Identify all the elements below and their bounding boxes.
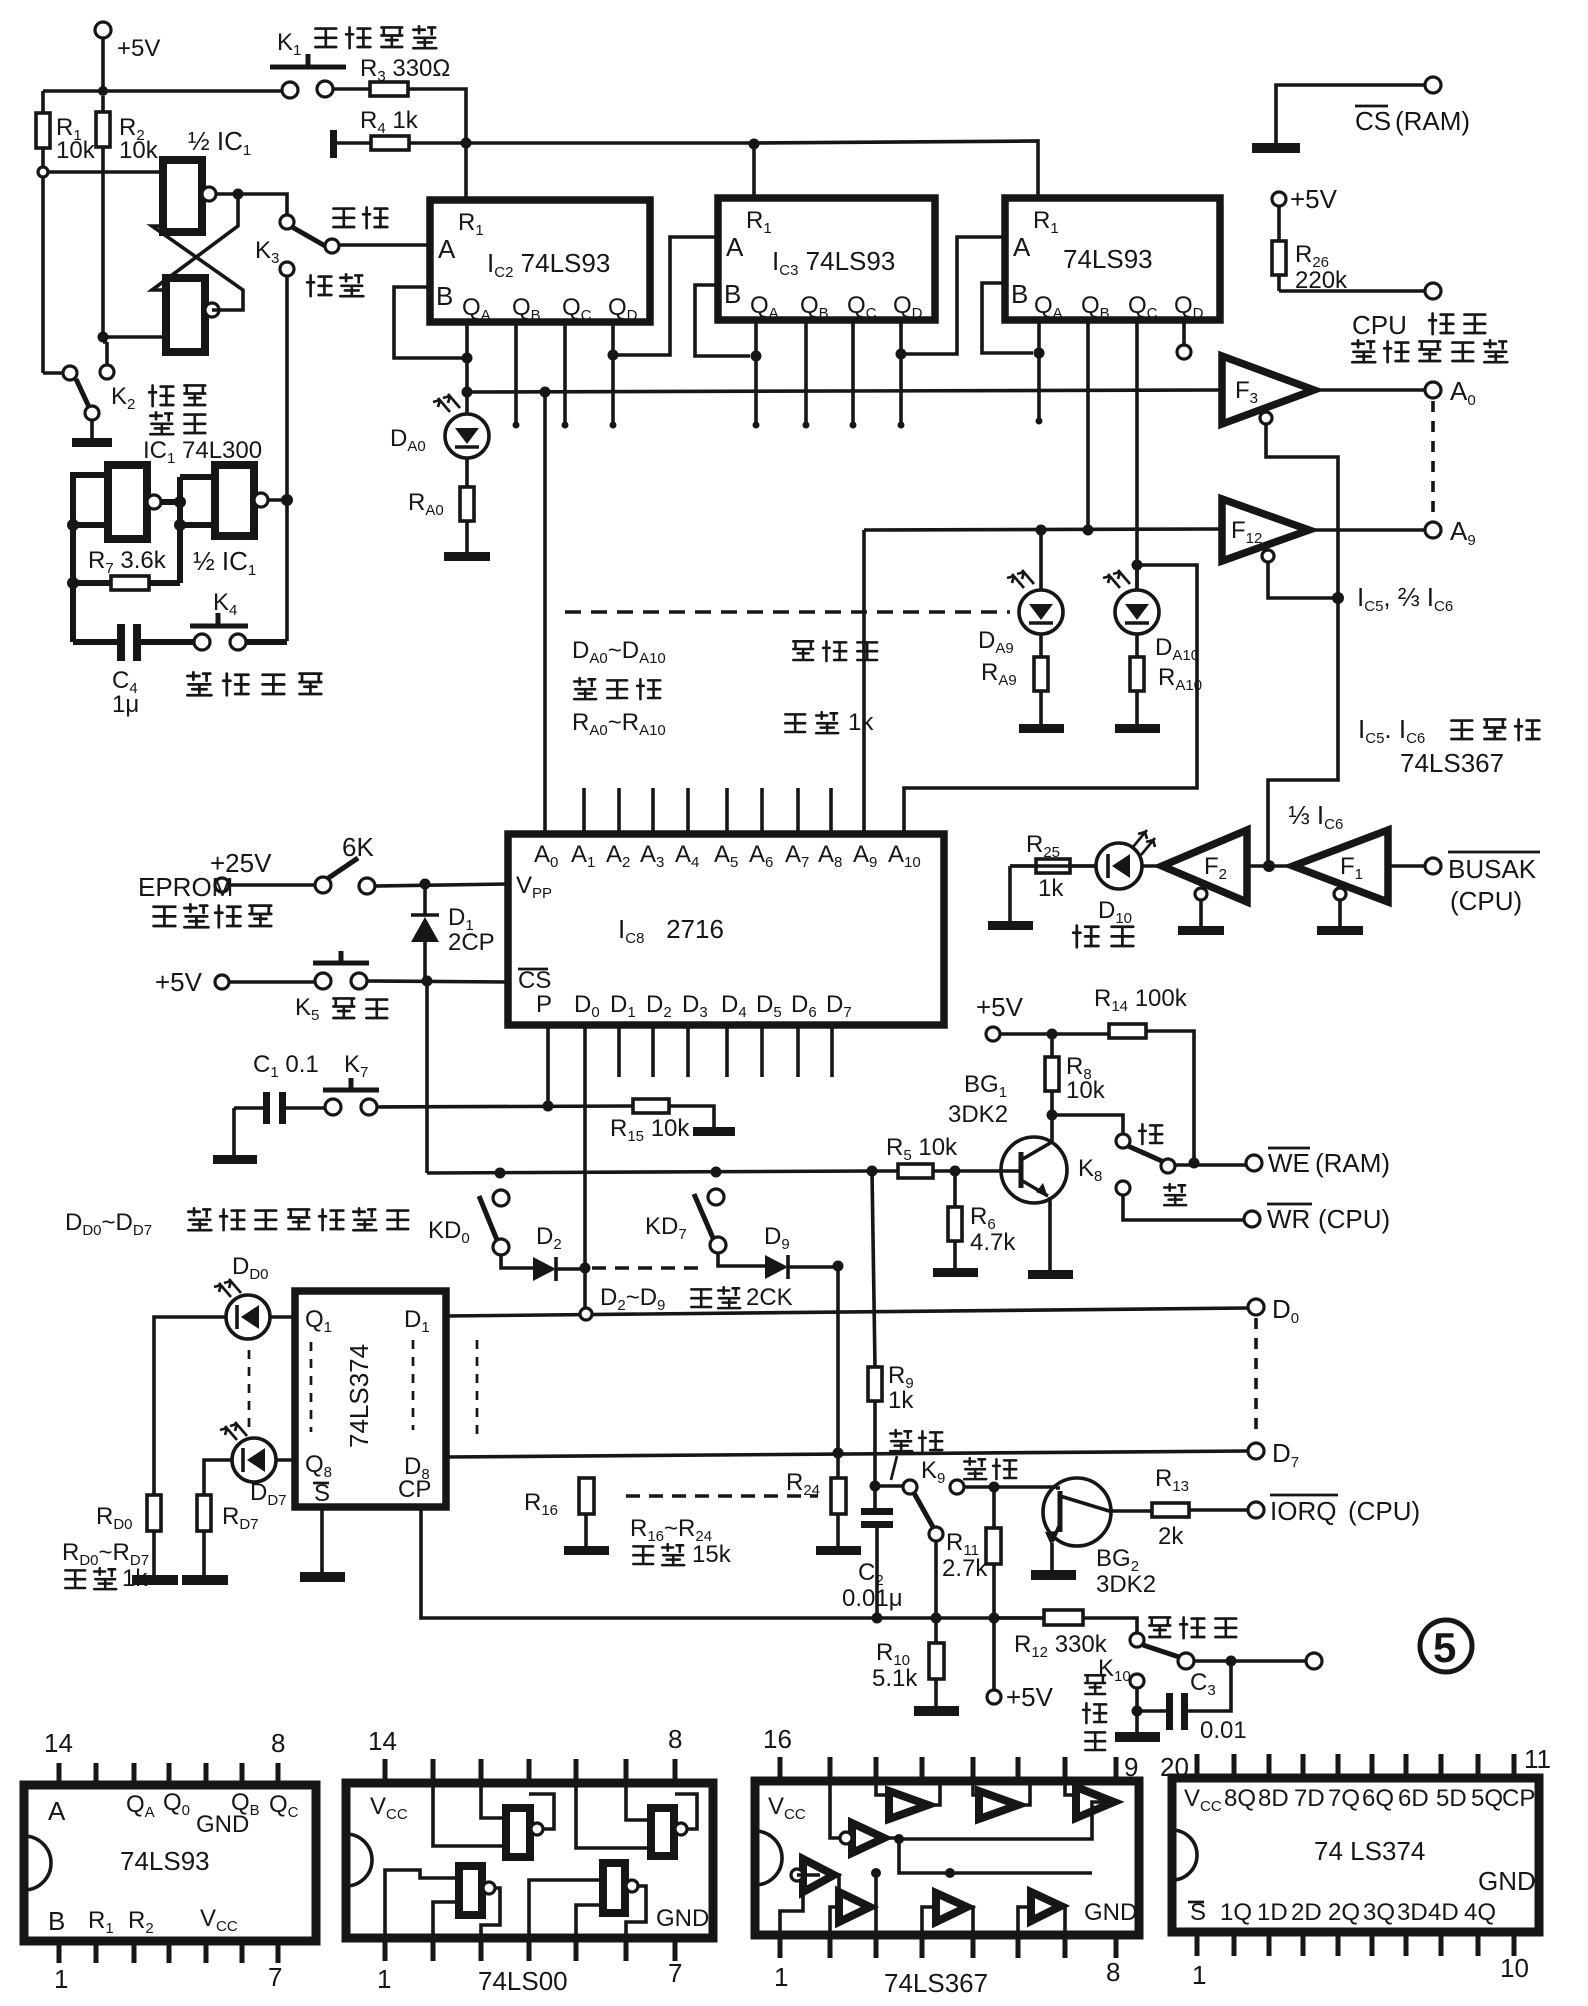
IC pinout 74LS367 bbox=[755, 1724, 1139, 1998]
svg-text:2D: 2D bbox=[1291, 1899, 1322, 1926]
svg-text:8: 8 bbox=[668, 1724, 682, 1754]
inverter E1 of 74LS367 bbox=[840, 1823, 884, 1853]
svg-text:WE: WE bbox=[1268, 1148, 1310, 1178]
wires 74LS00 internal bbox=[385, 1783, 697, 1938]
node A10 tap bbox=[1132, 560, 1143, 571]
svg-text:0.01: 0.01 bbox=[1200, 1717, 1247, 1744]
terminal D7 bbox=[1248, 1438, 1299, 1471]
resistor RD7 bbox=[197, 1495, 259, 1575]
inverter E2 of 74LS367 bbox=[791, 1859, 834, 1892]
terminal D0 bbox=[1248, 1294, 1299, 1327]
nand gate G4 (half IC1 oscillator) bbox=[215, 465, 268, 536]
resistor R26 220k bbox=[1272, 206, 1348, 294]
svg-text:(CPU): (CPU) bbox=[1318, 1204, 1390, 1234]
svg-text:6Q: 6Q bbox=[1362, 1785, 1394, 1812]
svg-text:GND: GND bbox=[1478, 1866, 1536, 1896]
wire +5V down to bus bbox=[101, 38, 105, 91]
IC 74LS374 latch bbox=[295, 1291, 446, 1507]
wire R1 column down to K2 bbox=[41, 177, 45, 373]
terminal WE(RAM) bbox=[1246, 1148, 1390, 1178]
resistor R14 100k bbox=[1094, 985, 1194, 1160]
ground RD7 bbox=[182, 1575, 228, 1585]
wire +5V to R8 top bbox=[1000, 1032, 1109, 1036]
svg-text:+5V: +5V bbox=[1290, 184, 1338, 214]
wire A3 stub bbox=[651, 788, 655, 834]
wire output to BG2 base bbox=[964, 1485, 1056, 1489]
wire IC2 QB stub bbox=[514, 322, 518, 423]
svg-text:R5 10k: R5 10k bbox=[886, 1134, 958, 1164]
dashed D lines omitted bbox=[476, 1340, 479, 1440]
buffer F1 bbox=[1293, 830, 1388, 935]
wire G3 out to G4 inputs bbox=[161, 477, 215, 583]
svg-text:B: B bbox=[48, 1906, 65, 1936]
svg-text:½ IC1: ½ IC1 bbox=[188, 126, 251, 159]
wire A0 column down to EPROM bbox=[543, 392, 547, 834]
resistor R13 2k bbox=[1152, 1465, 1248, 1550]
svg-text:1: 1 bbox=[377, 1964, 391, 1994]
wire D2 stub bbox=[651, 1025, 655, 1077]
ground R6 bbox=[933, 1268, 978, 1277]
svg-text:BUSAK: BUSAK bbox=[1448, 854, 1537, 884]
ground BG2 emitter bbox=[1031, 1570, 1076, 1580]
svg-text:½ IC1: ½ IC1 bbox=[193, 546, 256, 579]
node KD7 tap bbox=[711, 1167, 722, 1178]
svg-text:B: B bbox=[436, 281, 453, 311]
svg-text:8: 8 bbox=[271, 1728, 285, 1758]
svg-text:R14 100k: R14 100k bbox=[1094, 985, 1188, 1015]
IC pinout 74LS93 bbox=[24, 1728, 316, 1994]
nand gate P4 of 74LS00 bbox=[603, 1863, 638, 1913]
svg-text:R7 3.6k: R7 3.6k bbox=[88, 547, 167, 577]
node K9 feed bbox=[870, 1481, 881, 1492]
wire K4 to fast column bbox=[246, 639, 287, 645]
svg-text:2Q: 2Q bbox=[1328, 1899, 1360, 1926]
resistor R5 10k bbox=[872, 1134, 1021, 1178]
nand gate P3 of 74LS00 bbox=[459, 1866, 495, 1915]
nand gate G2 (half IC1 RS latch lower) bbox=[166, 278, 219, 352]
node R11-strobe bbox=[989, 1613, 1000, 1624]
svg-text:6K: 6K bbox=[342, 832, 374, 862]
wire KD bus bbox=[427, 1171, 872, 1173]
node R11 top bbox=[989, 1482, 1000, 1493]
wire QD to IC3 A bbox=[613, 237, 718, 355]
wire D3 stub bbox=[686, 1025, 690, 1077]
wire F12 enable bbox=[1268, 562, 1338, 598]
wire F3 out to A0 bbox=[1314, 388, 1425, 392]
resistor R1 10k bbox=[36, 91, 96, 167]
terminal output bbox=[950, 1480, 964, 1494]
wire top bus y=91 bbox=[43, 89, 282, 93]
transistor BG1 3DK2 bbox=[948, 1071, 1067, 1270]
svg-text:A: A bbox=[438, 234, 456, 264]
+5V supply terminal bbox=[95, 22, 160, 62]
svg-text:8D: 8D bbox=[1258, 1785, 1289, 1812]
svg-text:11: 11 bbox=[1524, 1744, 1551, 1774]
svg-text:CP: CP bbox=[1502, 1785, 1535, 1812]
label K1 地址清零 bbox=[277, 26, 436, 59]
svg-text:7Q: 7Q bbox=[1328, 1785, 1360, 1812]
wire A9 bus to F12 bbox=[864, 529, 1219, 530]
dashed Q lines omitted bbox=[248, 1350, 251, 1430]
label R16~R24 15k bbox=[630, 1515, 732, 1568]
svg-text:1: 1 bbox=[54, 1964, 68, 1994]
node A0 column tap bbox=[540, 387, 551, 398]
ground S pin bbox=[300, 1507, 345, 1582]
wire K9 pole down bbox=[934, 1541, 938, 1618]
node IC3 QD link bbox=[896, 349, 907, 360]
svg-text:7: 7 bbox=[668, 1958, 682, 1988]
label 快速 bbox=[307, 274, 363, 296]
wire A10 jog to EPROM bbox=[904, 565, 1197, 834]
LED DA0 bbox=[433, 392, 489, 458]
ground K10 bbox=[1115, 1711, 1160, 1742]
node C2 strobe bus bbox=[872, 1613, 883, 1624]
svg-text:10k: 10k bbox=[1066, 1077, 1106, 1104]
wire D6 stub bbox=[796, 1025, 800, 1077]
switch K10 bus on/off bbox=[1098, 1633, 1194, 1688]
node A9 tap QB bbox=[1083, 525, 1094, 536]
svg-text:0.01μ: 0.01μ bbox=[842, 1585, 903, 1612]
wire A4 stub bbox=[686, 788, 690, 834]
ground RA10 bbox=[1115, 724, 1160, 733]
node R7 left bbox=[67, 577, 79, 589]
wire A1 stub bbox=[582, 788, 586, 834]
wire IC2 R1 pin bbox=[464, 143, 468, 200]
wire D0 column bbox=[583, 1025, 587, 1310]
wire IC3 QA stub bbox=[754, 320, 758, 423]
wire D1 column down bbox=[425, 981, 429, 1173]
svg-text:3Q: 3Q bbox=[1363, 1899, 1395, 1926]
ground R25 bbox=[988, 866, 1033, 930]
terminal +25V EPROM program voltage bbox=[138, 848, 272, 927]
wire F12 out to A9 bbox=[1309, 528, 1425, 532]
dashed D2-D9 bbox=[592, 1266, 707, 1270]
nand gate P2 of 74LS00 bbox=[651, 1808, 687, 1856]
svg-text:A: A bbox=[1013, 232, 1031, 262]
label 总线开 bbox=[1149, 1617, 1236, 1638]
transistor BG2 3DK2 bbox=[1043, 1478, 1156, 1598]
wire A0 bus to F3 bbox=[467, 390, 1219, 392]
capacitor C2 0.01u bbox=[842, 1486, 903, 1618]
label 手动 bbox=[333, 207, 387, 228]
LED D10 yellow bbox=[1010, 830, 1155, 927]
wire A6 stub bbox=[760, 788, 764, 834]
svg-text:R4 1k: R4 1k bbox=[360, 107, 419, 137]
svg-text:2CP: 2CP bbox=[448, 929, 495, 956]
wire IC3 QB stub bbox=[804, 320, 808, 423]
wire K3 pole to IC2 A input bbox=[339, 243, 430, 247]
node R8 top bbox=[1047, 1029, 1058, 1040]
resistor R4 1k bbox=[330, 107, 419, 158]
resistor RA0 bbox=[408, 458, 474, 552]
wire IC4 B feedback bbox=[982, 283, 1033, 353]
wire K5 to CS bbox=[367, 981, 508, 982]
node D9-R24col bbox=[833, 1261, 844, 1272]
svg-text:74LS00: 74LS00 bbox=[478, 1966, 568, 1996]
wire F1 to BUSAK bbox=[1388, 864, 1425, 868]
label D2~D9 all 2CK bbox=[600, 1284, 793, 1314]
switch KD7 bbox=[645, 1189, 726, 1253]
ground R10 bbox=[914, 1706, 959, 1716]
svg-text:4Q: 4Q bbox=[1464, 1899, 1496, 1926]
resistor RA9 bbox=[981, 634, 1048, 724]
terminal IORQ(CPU) bbox=[1248, 1495, 1420, 1526]
label 黄色 bbox=[1073, 926, 1133, 948]
terminal A9 bbox=[1425, 516, 1476, 549]
wire A7 stub bbox=[796, 788, 800, 834]
buffer T3 of 74LS367 bbox=[1076, 1787, 1114, 1818]
svg-text:4D: 4D bbox=[1428, 1899, 1459, 1926]
wire D4 stub bbox=[725, 1025, 729, 1077]
terminal +5V BG1 bbox=[976, 992, 1024, 1041]
IC pinout 74LS00 bbox=[346, 1724, 713, 1996]
wire K10 lower to C3/gnd bbox=[1137, 1688, 1166, 1711]
svg-text:CP: CP bbox=[398, 1476, 431, 1503]
svg-text:CS: CS bbox=[518, 967, 551, 994]
switch 6K bbox=[229, 832, 375, 894]
svg-text:14: 14 bbox=[368, 1726, 397, 1756]
node +5V bus junction bbox=[98, 86, 108, 96]
node D2-D0col bbox=[580, 1263, 591, 1274]
node IC2 QA-B bbox=[462, 353, 473, 364]
wire G1 top input bbox=[48, 170, 163, 174]
label 1/2 IC1 bbox=[188, 126, 251, 159]
buffer T4 of 74LS367 bbox=[839, 1892, 870, 1922]
svg-text:IORQ: IORQ bbox=[1270, 1496, 1336, 1526]
svg-text:C1 0.1: C1 0.1 bbox=[253, 1051, 319, 1081]
wire K10 to open terminal bbox=[1194, 1659, 1306, 1663]
svg-text:74LS367: 74LS367 bbox=[1400, 748, 1504, 778]
ground C1 bbox=[213, 1108, 257, 1164]
svg-text:2k: 2k bbox=[1158, 1523, 1184, 1550]
terminal WR(CPU) bbox=[1244, 1204, 1390, 1234]
label 写 bbox=[1139, 1124, 1162, 1144]
wire R24 column bbox=[836, 1266, 840, 1478]
wire 6K to Vpp bbox=[375, 884, 508, 886]
LED DA10 bbox=[1103, 565, 1159, 634]
LED DA9 bbox=[1007, 530, 1063, 634]
svg-text:R3 330Ω: R3 330Ω bbox=[360, 55, 450, 85]
nand gate P1 of 74LS00 bbox=[506, 1808, 543, 1857]
IC8 2716 EPROM bbox=[508, 834, 944, 1025]
svg-text:74 LS374: 74 LS374 bbox=[1314, 1836, 1425, 1866]
svg-text:D2~D9: D2~D9 bbox=[600, 1284, 665, 1314]
node enable join bbox=[1332, 592, 1344, 604]
svg-text:5: 5 bbox=[1433, 1624, 1456, 1671]
ground RD0 bbox=[132, 1575, 178, 1585]
dashed A0-A9 bbox=[1431, 401, 1435, 518]
resistor R12 330k bbox=[1014, 1610, 1137, 1661]
node A9 tap DA9 bbox=[1036, 525, 1047, 536]
node G4 in2 bbox=[174, 519, 186, 531]
switch K4 (oscillator start pushbutton) bbox=[190, 589, 248, 650]
label 起振开关 bbox=[187, 672, 321, 695]
resistor R25 1k bbox=[1010, 831, 1096, 902]
ground RA0 bbox=[444, 552, 490, 561]
svg-text:2CK: 2CK bbox=[746, 1284, 793, 1311]
svg-text:74LS93: 74LS93 bbox=[120, 1846, 210, 1876]
wire IC3 QD stub bbox=[899, 320, 903, 423]
node C3 gnd bbox=[1132, 1706, 1143, 1717]
nand gate G3 (half IC1 oscillator) bbox=[108, 465, 161, 539]
resistor RA10 bbox=[1130, 634, 1202, 724]
terminal bus open bbox=[1306, 1653, 1322, 1669]
switch K2 (address count) bbox=[43, 342, 114, 447]
svg-text:1μ: 1μ bbox=[112, 691, 139, 718]
svg-text:B: B bbox=[1011, 279, 1028, 309]
resistor R10 5.1k bbox=[872, 1618, 944, 1706]
diode D2 bbox=[501, 1223, 585, 1281]
wire IC4 QC column to A10 net bbox=[1135, 320, 1139, 590]
capacitor C4 1u bbox=[73, 624, 194, 718]
capacitor C3 0.01 bbox=[1166, 1661, 1247, 1744]
node G1 input bbox=[38, 167, 48, 177]
wire F2-F1 link bbox=[1247, 864, 1290, 868]
svg-text:1k: 1k bbox=[848, 709, 874, 736]
wire collector node to K8 bbox=[1052, 1115, 1123, 1134]
LED DD7 bbox=[204, 1422, 295, 1509]
wire strobe bus R12 bbox=[994, 1616, 1044, 1620]
wire IC3 QC stub bbox=[851, 320, 855, 423]
wire IC4 QD stub open bbox=[1182, 320, 1186, 345]
svg-text:5D: 5D bbox=[1436, 1785, 1467, 1812]
svg-text:8Q: 8Q bbox=[1224, 1785, 1256, 1812]
wire R3 to corner down to R4 bus bbox=[408, 89, 466, 143]
node P pin bbox=[543, 1101, 554, 1112]
wire IC3 QD to counter3 A bbox=[901, 237, 1005, 354]
wire K1 to R3 bbox=[333, 87, 370, 91]
diode D1 2CP bbox=[411, 884, 495, 979]
wire RS cross-coupling X bbox=[152, 194, 243, 310]
buffer T2 of 74LS367 bbox=[979, 1791, 1018, 1819]
svg-text:B: B bbox=[724, 279, 741, 309]
svg-text:9: 9 bbox=[1124, 1752, 1138, 1782]
terminal BUSAK(CPU) bbox=[1425, 852, 1540, 916]
node G3 in bbox=[67, 519, 79, 531]
svg-text:10k: 10k bbox=[119, 137, 159, 164]
node K9-R10 bbox=[931, 1613, 942, 1624]
svg-text:R15 10k: R15 10k bbox=[610, 1115, 690, 1145]
resistor R7 3.6k bbox=[73, 547, 180, 590]
svg-text:74LS367: 74LS367 bbox=[884, 1968, 988, 1998]
svg-text:P: P bbox=[536, 991, 552, 1018]
svg-text:5Q: 5Q bbox=[1471, 1785, 1503, 1812]
terminal +5V K5 bbox=[155, 967, 229, 997]
wire IC2 QA column bbox=[465, 322, 469, 392]
svg-text:A: A bbox=[726, 232, 744, 262]
wire D8 bus to D7 terminal bbox=[446, 1451, 1248, 1457]
label DD0~DD7 green LEDs bbox=[65, 1208, 408, 1239]
LED DD0 bbox=[154, 1253, 295, 1495]
IC pinout 74LS374 bbox=[1160, 1744, 1551, 1990]
node R24-D7bus bbox=[833, 1448, 844, 1459]
svg-text:(CPU): (CPU) bbox=[1450, 886, 1522, 916]
svg-text:(RAM): (RAM) bbox=[1315, 1148, 1390, 1178]
svg-text:10: 10 bbox=[1500, 1953, 1529, 1983]
svg-text:16: 16 bbox=[763, 1724, 792, 1754]
buffer T6 of 74LS367 bbox=[1031, 1892, 1061, 1921]
terminal +5V bottom bbox=[987, 1682, 1054, 1712]
buffer F2 bbox=[1142, 830, 1247, 935]
node QA bus bbox=[462, 387, 473, 398]
wire R2 col to G2 lower input bbox=[103, 335, 166, 339]
node BG1 collector bbox=[1047, 1110, 1058, 1121]
wire fast contact down to oscillator bbox=[285, 276, 289, 641]
terminal A0 bbox=[1425, 376, 1476, 409]
node IC4 QA-B bbox=[1034, 348, 1045, 359]
svg-text:3DK2: 3DK2 bbox=[948, 1101, 1008, 1128]
wire IC4 QB column to A9 net bbox=[1086, 320, 1090, 530]
node Vpp-D1 bbox=[420, 879, 431, 890]
switch KD0 bbox=[428, 1190, 509, 1255]
svg-text:1: 1 bbox=[774, 1962, 788, 1992]
buffer F12 bbox=[1222, 499, 1309, 562]
svg-text:WR: WR bbox=[1267, 1204, 1310, 1234]
ground R24 bbox=[816, 1546, 861, 1555]
wire G4 out bbox=[268, 498, 287, 502]
svg-text:+5V: +5V bbox=[117, 35, 160, 62]
terminal CPU control bbox=[1425, 283, 1441, 299]
node R4-IC3 bbox=[749, 139, 760, 150]
wire manual contact feed bbox=[238, 194, 287, 215]
svg-text:CS: CS bbox=[1355, 106, 1391, 136]
svg-text:3D: 3D bbox=[1397, 1899, 1428, 1926]
resistor R15 10k bbox=[610, 1099, 735, 1145]
ground BG1 emitter bbox=[1028, 1270, 1073, 1279]
resistor RD0 bbox=[96, 1495, 161, 1575]
resistor R8 10k bbox=[1045, 1034, 1106, 1115]
resistor R24 bbox=[786, 1469, 846, 1546]
svg-text:2.7k: 2.7k bbox=[942, 1555, 988, 1582]
node D0 col circle junction bbox=[580, 1308, 592, 1320]
svg-text:8: 8 bbox=[1106, 1957, 1120, 1987]
wire IC2 QC stub bbox=[563, 322, 567, 423]
svg-text:7D: 7D bbox=[1294, 1785, 1325, 1812]
node C3 tap bbox=[1226, 1656, 1237, 1667]
label RD0~RD7 1k bbox=[62, 1539, 149, 1592]
node R4-IC2 bbox=[461, 138, 472, 149]
buffer F3 bbox=[1222, 356, 1314, 424]
switch K7 pushbutton bbox=[323, 1051, 379, 1115]
svg-text:+5V: +5V bbox=[155, 967, 203, 997]
label 总线关 vertical bbox=[1083, 1675, 1106, 1750]
svg-text:14: 14 bbox=[44, 1728, 73, 1758]
svg-text:+5V: +5V bbox=[976, 992, 1024, 1022]
svg-text:1k: 1k bbox=[888, 1387, 914, 1414]
svg-text:GND: GND bbox=[1084, 1899, 1137, 1926]
svg-text:1Q: 1Q bbox=[1220, 1899, 1252, 1926]
svg-text:3DK2: 3DK2 bbox=[1096, 1571, 1156, 1598]
svg-text:4.7k: 4.7k bbox=[970, 1229, 1016, 1256]
wire R4 bus to counters bbox=[409, 141, 1038, 198]
wire A5 stub bbox=[725, 788, 729, 834]
ground R16 bbox=[564, 1546, 609, 1555]
resistor R11 2.7k bbox=[942, 1487, 1001, 1690]
svg-text:+5V: +5V bbox=[1006, 1682, 1054, 1712]
svg-text:10k: 10k bbox=[56, 137, 96, 164]
label 输出 bbox=[964, 1458, 1016, 1479]
switch K9 input/output bbox=[875, 1457, 945, 1541]
svg-text:GND: GND bbox=[656, 1905, 709, 1932]
label 输入 with pointer bbox=[890, 1430, 942, 1480]
svg-text:A: A bbox=[48, 1796, 66, 1826]
node KD0 tap bbox=[495, 1168, 506, 1179]
svg-text:(CPU): (CPU) bbox=[1348, 1496, 1420, 1526]
node R2-G2 junction bbox=[98, 332, 109, 343]
svg-text:1: 1 bbox=[1192, 1960, 1206, 1990]
ground RA9 bbox=[1019, 724, 1064, 733]
switch K1 (address clear pushbutton) bbox=[270, 54, 346, 98]
